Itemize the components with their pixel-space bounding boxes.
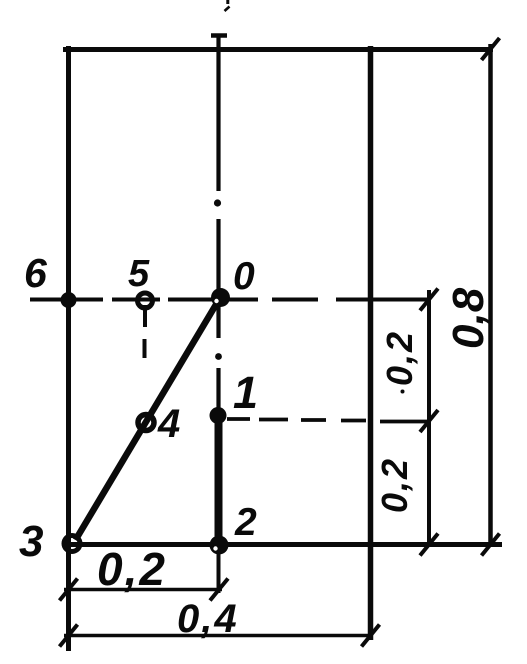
node 5 marker [138,293,153,308]
tick at 0,2 right dimensions middle [420,410,438,432]
centerline dash segment 2 [216,219,220,338]
node 0 marker [211,288,230,307]
tick at 0,2 lower right dimension bottom [420,534,438,556]
node 1 marker [210,407,227,424]
tick right end of 0,4 bottom [362,625,380,647]
tick at 0,2 upper right dimension top [420,289,438,311]
svg-text:1: 1 [233,367,258,418]
centerline T-bar top [211,33,227,38]
node 6 marker [61,292,77,308]
svg-text:4: 4 [157,402,180,446]
svg-text:0,2: 0,2 [374,457,415,513]
wire dashed line through 1 to dimension [227,419,429,422]
wire dimension line 0,2 bottom [64,588,222,592]
wire frame right edge [368,46,374,640]
svg-text:0: 0 [233,255,255,298]
tick left end of 0,2 bottom [60,579,78,601]
tick left end of 0,4 bottom [60,625,78,647]
svg-text:3: 3 [19,517,43,566]
svg-text:0,2: 0,2 [379,330,420,386]
svg-text:0,2: 0,2 [97,543,167,595]
node 4 marker [138,415,154,431]
centerline dot 2 [215,353,222,360]
node 2 marker white notch [213,546,217,550]
wire extension below point 2 [217,546,221,593]
wire frame left edge [66,46,71,651]
wire dimension line 0,8 vertical x=490 [488,44,493,544]
wire frame bottom edge / dimension base line [63,542,502,547]
tick at top of 0,8 dimension [482,38,500,60]
node 0 marker white notch [214,299,218,303]
centerline remnant slash top [225,7,230,12]
wire dimension extension vertical x=429 [427,290,431,544]
svg-text:6: 6 [24,250,48,296]
wire diagonal segment 3-4-0 [76,297,221,540]
wire frame top edge [63,47,493,52]
wire displacement segment 1-2 [215,415,223,546]
node 3 marker [64,536,80,552]
centerline stub below point 5 [143,305,147,327]
svg-text:0,8: 0,8 [444,287,493,349]
centerline remnant speck top [226,0,229,4]
node 2 marker [210,536,229,555]
svg-text:2: 2 [234,501,257,544]
wire dimension line 0,4 bottom [64,634,373,638]
centerline dash below point 5 [143,339,147,358]
centerline dash segment 3 [216,368,220,412]
centerline dash segment 1 [216,36,220,191]
scan speck near upper 0,2 label [401,390,405,394]
wire dashed line through 6-5-0 [30,298,429,302]
svg-text:5: 5 [128,253,150,295]
tick right end of 0,2 bottom [210,579,228,601]
tick at bottom of 0,8 dimension [482,534,500,556]
svg-text:0,4: 0,4 [177,597,239,641]
centerline dot 1 [214,199,221,206]
